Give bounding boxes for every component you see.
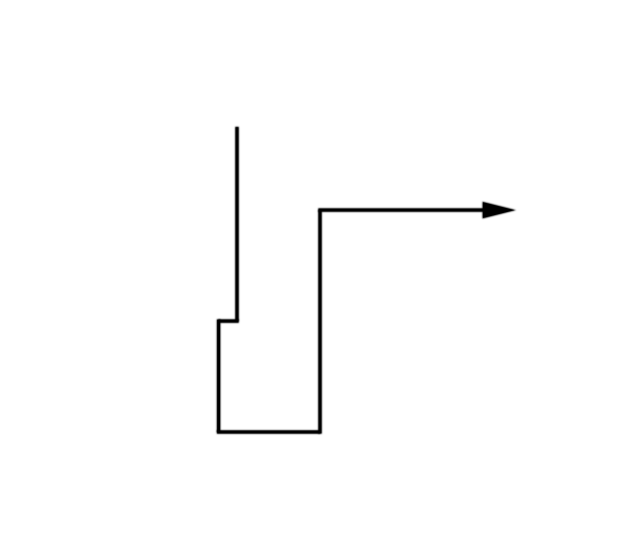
wire segment down from top: [235, 127, 239, 321]
wire segment to arrowhead: [318, 208, 484, 212]
wire jog left: [219, 319, 239, 323]
wire segment along bottom: [217, 430, 320, 434]
wire segment up right side: [318, 210, 322, 434]
wire segment down left side: [217, 319, 221, 432]
arrowhead: [482, 202, 516, 219]
